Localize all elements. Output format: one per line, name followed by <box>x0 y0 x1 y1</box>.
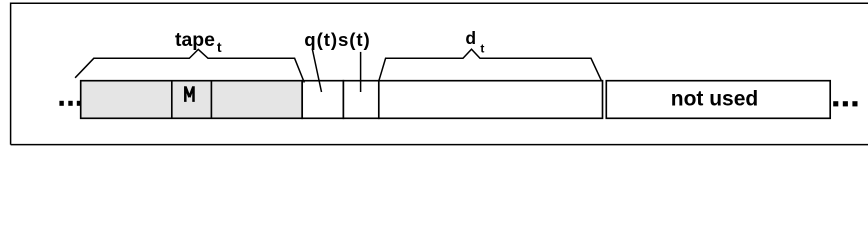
label M <box>185 86 193 102</box>
svg-text:not used: not used <box>671 87 759 110</box>
svg-text:tape: tape <box>175 29 215 51</box>
cell divider right <box>210 81 212 119</box>
s label line <box>360 52 362 92</box>
s box <box>343 81 378 119</box>
not used box <box>606 81 830 119</box>
tape brace <box>75 49 304 82</box>
svg-text:t: t <box>480 42 484 56</box>
d box <box>379 81 603 119</box>
outer border <box>11 3 868 144</box>
d brace <box>379 49 601 80</box>
cell divider left <box>171 81 173 119</box>
tape box (gray) <box>81 81 303 119</box>
q label line <box>312 49 321 93</box>
q box <box>302 81 343 119</box>
svg-text:d: d <box>465 28 476 48</box>
left ellipsis dots <box>59 101 81 106</box>
svg-text:q(t)s(t): q(t)s(t) <box>304 29 370 50</box>
right ellipsis dots <box>833 101 857 106</box>
svg-text:t: t <box>217 40 222 56</box>
